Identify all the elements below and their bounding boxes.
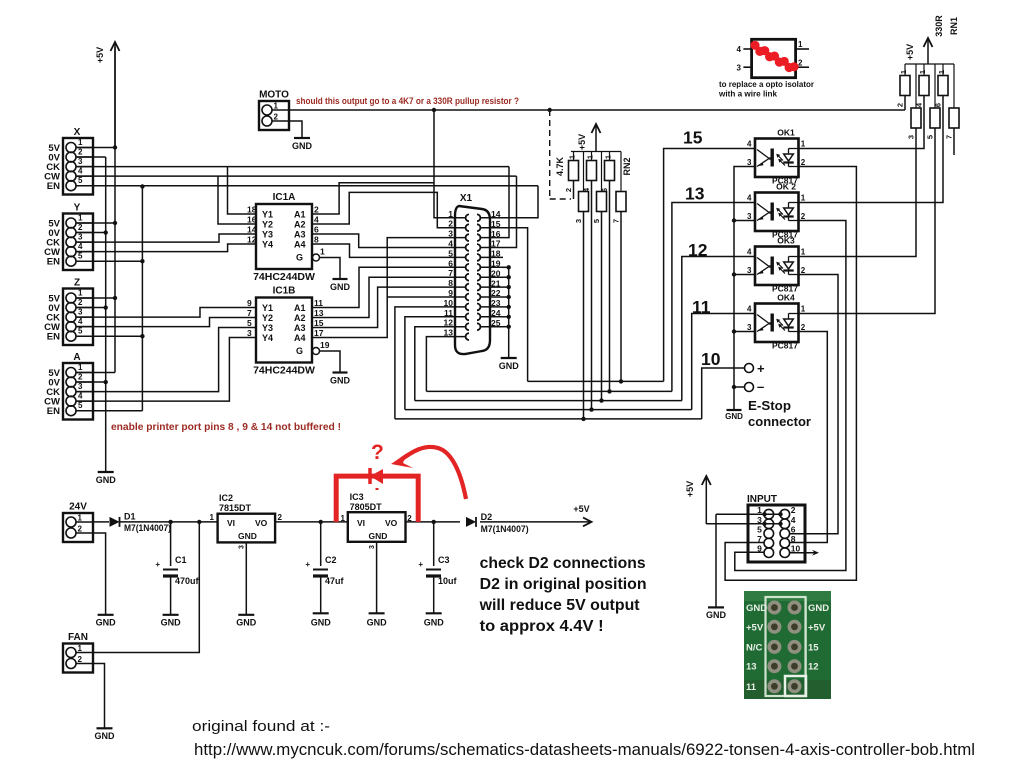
svg-text:4: 4 xyxy=(791,515,796,525)
svg-text:3: 3 xyxy=(747,323,752,332)
svg-text:EN: EN xyxy=(47,406,60,417)
svg-text:1: 1 xyxy=(801,140,806,149)
svg-text:2: 2 xyxy=(801,323,806,332)
svg-text:19: 19 xyxy=(491,259,501,269)
svg-text:4: 4 xyxy=(78,242,83,251)
svg-text:3: 3 xyxy=(239,545,246,549)
svg-text:IC2: IC2 xyxy=(219,493,233,503)
svg-text:original found at :-: original found at :- xyxy=(192,718,330,735)
svg-text:8: 8 xyxy=(448,278,453,288)
svg-text:OK3: OK3 xyxy=(777,236,795,246)
svg-text:12: 12 xyxy=(808,662,819,673)
svg-text:6: 6 xyxy=(791,525,796,535)
svg-text:1: 1 xyxy=(937,70,946,74)
svg-text:?: ? xyxy=(371,441,384,464)
svg-text:will reduce 5V output: will reduce 5V output xyxy=(479,597,641,614)
svg-text:7: 7 xyxy=(612,219,621,223)
svg-text:24: 24 xyxy=(491,308,501,318)
svg-text:N/C: N/C xyxy=(746,642,763,653)
svg-text:GND: GND xyxy=(746,603,767,614)
svg-text:7: 7 xyxy=(757,534,762,544)
svg-text:1: 1 xyxy=(801,248,806,257)
svg-text:RN1: RN1 xyxy=(949,17,959,35)
svg-text:OK1: OK1 xyxy=(777,128,795,138)
svg-text:GND: GND xyxy=(236,618,257,628)
svg-text:C1: C1 xyxy=(175,555,187,565)
svg-text:7: 7 xyxy=(247,308,252,318)
svg-text:GND: GND xyxy=(292,141,313,151)
svg-text:6: 6 xyxy=(600,188,609,192)
svg-text:1: 1 xyxy=(604,155,613,159)
svg-text:18: 18 xyxy=(491,249,501,259)
svg-text:74HC244DW: 74HC244DW xyxy=(253,271,315,283)
svg-text:A4: A4 xyxy=(294,333,306,343)
svg-text:18: 18 xyxy=(247,205,257,215)
svg-text:EN: EN xyxy=(47,332,60,343)
svg-text:Y1: Y1 xyxy=(262,303,273,313)
svg-text:4.7K: 4.7K xyxy=(555,156,565,176)
svg-text:GND: GND xyxy=(96,618,117,628)
svg-text:2: 2 xyxy=(78,373,83,382)
svg-text:3: 3 xyxy=(78,157,83,166)
svg-text:24V: 24V xyxy=(69,502,87,513)
svg-text:http://www.mycncuk.com/forums/: http://www.mycncuk.com/forums/schematics… xyxy=(194,741,975,759)
svg-text:2: 2 xyxy=(78,298,83,307)
svg-text:G: G xyxy=(296,346,303,356)
svg-text:2: 2 xyxy=(314,205,319,215)
svg-text:Y3: Y3 xyxy=(262,230,273,240)
svg-text:5: 5 xyxy=(448,248,453,258)
svg-text:2: 2 xyxy=(801,212,806,221)
svg-text:2: 2 xyxy=(448,219,453,229)
svg-text:1: 1 xyxy=(586,155,595,159)
svg-text:PC817: PC817 xyxy=(772,341,798,351)
svg-text:13: 13 xyxy=(746,662,757,673)
svg-text:25: 25 xyxy=(491,318,501,328)
svg-text:7815DT: 7815DT xyxy=(219,503,252,513)
svg-text:3: 3 xyxy=(369,545,376,549)
svg-text:M7(1N4007): M7(1N4007) xyxy=(481,524,529,534)
svg-text:10uf: 10uf xyxy=(438,576,458,586)
svg-text:+5V: +5V xyxy=(746,622,764,633)
svg-text:GND: GND xyxy=(311,618,332,628)
svg-text:+5V: +5V xyxy=(685,481,695,497)
svg-text:C3: C3 xyxy=(438,555,450,565)
svg-text:4: 4 xyxy=(78,167,83,176)
svg-text:21: 21 xyxy=(491,278,501,288)
svg-text:EN: EN xyxy=(47,181,60,192)
svg-text:14: 14 xyxy=(491,209,501,219)
svg-text:GND: GND xyxy=(330,376,351,386)
svg-text:6: 6 xyxy=(934,103,943,107)
svg-text:11: 11 xyxy=(746,682,757,693)
svg-text:3: 3 xyxy=(448,229,453,239)
svg-text:3: 3 xyxy=(574,219,583,223)
svg-text:4: 4 xyxy=(747,140,752,149)
svg-text:+5V: +5V xyxy=(95,47,105,63)
svg-text:GND: GND xyxy=(424,618,445,628)
svg-text:1: 1 xyxy=(918,70,927,74)
svg-text:13: 13 xyxy=(314,308,324,318)
svg-text:1: 1 xyxy=(798,40,803,49)
svg-text:with a wire link: with a wire link xyxy=(718,89,777,99)
svg-text:330R: 330R xyxy=(934,15,944,37)
svg-text:E-Stop: E-Stop xyxy=(748,399,791,413)
svg-text:3: 3 xyxy=(747,266,752,275)
svg-text:1: 1 xyxy=(899,70,908,74)
svg-text:4: 4 xyxy=(747,194,752,203)
svg-text:GND: GND xyxy=(369,531,388,541)
svg-text:5: 5 xyxy=(926,135,935,139)
svg-text:Z: Z xyxy=(74,278,80,289)
svg-text:470uf: 470uf xyxy=(175,576,200,586)
svg-text:2: 2 xyxy=(78,148,83,157)
svg-text:6: 6 xyxy=(448,258,453,268)
svg-text:1: 1 xyxy=(78,289,83,298)
svg-text:5: 5 xyxy=(78,327,83,336)
svg-text:16: 16 xyxy=(491,229,501,239)
svg-text:2: 2 xyxy=(78,655,83,664)
svg-text:1: 1 xyxy=(341,514,346,523)
svg-text:to approx 4.4V !: to approx 4.4V ! xyxy=(480,618,604,635)
svg-text:enable printer port pins 8 , 9: enable printer port pins 8 , 9 & 14 not … xyxy=(111,421,341,433)
svg-text:X: X xyxy=(74,127,81,138)
svg-text:1: 1 xyxy=(210,513,215,522)
svg-text:D1: D1 xyxy=(124,512,136,522)
svg-text:should this output go to a 4K7: should this output go to a 4K7 or a 330R… xyxy=(296,96,519,107)
svg-text:MOTO: MOTO xyxy=(259,90,289,101)
svg-text:2: 2 xyxy=(278,513,283,522)
svg-text:A4: A4 xyxy=(294,240,306,250)
svg-text:check D2 connections: check D2 connections xyxy=(480,555,646,572)
svg-text:EN: EN xyxy=(47,257,60,268)
svg-text:+5V: +5V xyxy=(808,622,826,633)
svg-text:15: 15 xyxy=(314,318,324,328)
svg-text:74HC244DW: 74HC244DW xyxy=(253,365,315,377)
svg-text:4: 4 xyxy=(747,305,752,314)
svg-text:+5V: +5V xyxy=(573,504,589,514)
svg-text:A1: A1 xyxy=(294,303,306,313)
svg-text:3: 3 xyxy=(78,233,83,242)
svg-text:7: 7 xyxy=(945,135,954,139)
svg-text:3: 3 xyxy=(737,64,742,73)
svg-text:3: 3 xyxy=(747,158,752,167)
svg-text:4: 4 xyxy=(78,317,83,326)
svg-text:2: 2 xyxy=(78,525,83,534)
svg-text:A: A xyxy=(73,352,80,363)
svg-text:A2: A2 xyxy=(294,220,306,230)
svg-text:+5V: +5V xyxy=(577,134,587,150)
svg-text:1: 1 xyxy=(78,138,83,147)
svg-text:G: G xyxy=(296,253,303,263)
svg-text:1: 1 xyxy=(78,363,83,372)
svg-text:+: + xyxy=(418,560,423,569)
svg-text:5: 5 xyxy=(78,176,83,185)
svg-text:4: 4 xyxy=(448,239,453,249)
svg-text:1: 1 xyxy=(320,247,325,257)
svg-text:GND: GND xyxy=(499,361,520,371)
svg-text:1: 1 xyxy=(801,305,806,314)
svg-text:GND: GND xyxy=(96,475,117,485)
svg-text:GND: GND xyxy=(238,531,257,541)
svg-text:Y2: Y2 xyxy=(262,220,273,230)
svg-text:5: 5 xyxy=(247,318,252,328)
svg-text:47uf: 47uf xyxy=(325,576,345,586)
svg-text:2: 2 xyxy=(274,113,279,122)
svg-text:3: 3 xyxy=(747,212,752,221)
svg-text:+: + xyxy=(155,560,160,569)
svg-text:3: 3 xyxy=(78,382,83,391)
svg-text:A3: A3 xyxy=(294,230,306,240)
svg-text:A2: A2 xyxy=(294,313,306,323)
svg-text:16: 16 xyxy=(247,215,257,225)
svg-text:+: + xyxy=(305,560,310,569)
svg-text:VO: VO xyxy=(385,518,398,528)
svg-text:15: 15 xyxy=(683,128,703,148)
svg-text:9: 9 xyxy=(757,544,762,554)
svg-text:5: 5 xyxy=(592,219,601,223)
svg-text:C2: C2 xyxy=(325,555,337,565)
svg-text:connector: connector xyxy=(748,415,811,429)
svg-text:2: 2 xyxy=(896,103,905,107)
svg-text:OK 2: OK 2 xyxy=(776,182,796,192)
svg-text:IC1A: IC1A xyxy=(273,192,296,203)
svg-text:13: 13 xyxy=(685,184,705,204)
svg-text:A1: A1 xyxy=(294,210,306,220)
svg-text:2: 2 xyxy=(78,223,83,232)
svg-text:4: 4 xyxy=(737,45,742,54)
svg-text:15: 15 xyxy=(808,642,819,653)
svg-text:Y3: Y3 xyxy=(262,323,273,333)
svg-text:2: 2 xyxy=(798,59,803,68)
svg-text:17: 17 xyxy=(491,239,501,249)
svg-text:GND: GND xyxy=(808,603,829,614)
svg-text:VI: VI xyxy=(357,518,365,528)
svg-text:12: 12 xyxy=(247,235,257,245)
svg-text:Y2: Y2 xyxy=(262,313,273,323)
svg-text:4: 4 xyxy=(314,215,319,225)
svg-text:20: 20 xyxy=(491,268,501,278)
svg-text:3: 3 xyxy=(78,308,83,317)
svg-text:RN2: RN2 xyxy=(622,157,632,175)
svg-text:GND: GND xyxy=(725,412,743,421)
svg-text:1: 1 xyxy=(274,102,279,111)
svg-text:–: – xyxy=(757,379,764,394)
svg-text:5: 5 xyxy=(78,252,83,261)
svg-text:1: 1 xyxy=(801,194,806,203)
svg-text:7: 7 xyxy=(448,268,453,278)
svg-text:INPUT: INPUT xyxy=(747,494,777,505)
svg-text:D2: D2 xyxy=(481,512,493,522)
svg-text:Y1: Y1 xyxy=(262,210,273,220)
svg-text:3: 3 xyxy=(247,328,252,338)
svg-text:+5V: +5V xyxy=(905,44,915,60)
svg-text:5: 5 xyxy=(757,525,762,535)
svg-text:GND: GND xyxy=(706,610,727,620)
svg-text:IC1B: IC1B xyxy=(273,286,296,297)
svg-text:8: 8 xyxy=(314,235,319,245)
svg-text:+: + xyxy=(757,361,765,376)
svg-text:OK4: OK4 xyxy=(777,293,795,303)
svg-text:1: 1 xyxy=(78,644,83,653)
svg-text:GND: GND xyxy=(330,282,351,292)
svg-text:1: 1 xyxy=(78,214,83,223)
svg-text:10: 10 xyxy=(701,349,721,369)
svg-text:3: 3 xyxy=(907,135,916,139)
svg-text:7805DT: 7805DT xyxy=(350,502,383,512)
svg-text:17: 17 xyxy=(314,328,324,338)
svg-text:11: 11 xyxy=(444,308,453,318)
svg-text:VI: VI xyxy=(227,518,235,528)
svg-text:8: 8 xyxy=(791,534,796,544)
svg-text:A3: A3 xyxy=(294,323,306,333)
svg-text:9: 9 xyxy=(448,288,453,298)
svg-text:2: 2 xyxy=(791,505,796,515)
svg-text:Y: Y xyxy=(74,203,81,214)
svg-text:11: 11 xyxy=(314,298,323,308)
svg-text:FAN: FAN xyxy=(68,632,88,643)
svg-text:4: 4 xyxy=(78,392,83,401)
svg-text:23: 23 xyxy=(491,298,501,308)
svg-text:GND: GND xyxy=(161,618,182,628)
svg-text:Y4: Y4 xyxy=(262,240,273,250)
svg-text:2: 2 xyxy=(801,158,806,167)
svg-text:Y4: Y4 xyxy=(262,333,273,343)
svg-text:VO: VO xyxy=(255,518,268,528)
svg-text:22: 22 xyxy=(491,288,501,298)
svg-text:1: 1 xyxy=(568,155,577,159)
svg-text:6: 6 xyxy=(314,225,319,235)
svg-text:GND: GND xyxy=(95,731,116,741)
svg-text:to replace a opto isolator: to replace a opto isolator xyxy=(719,79,815,89)
svg-text:X1: X1 xyxy=(460,193,473,204)
svg-text:D2 in original position: D2 in original position xyxy=(480,576,647,593)
svg-text:15: 15 xyxy=(491,219,501,229)
svg-text:M7(1N4007): M7(1N4007) xyxy=(124,523,171,533)
svg-text:4: 4 xyxy=(747,248,752,257)
svg-text:14: 14 xyxy=(247,225,257,235)
svg-text:2: 2 xyxy=(801,266,806,275)
svg-text:5: 5 xyxy=(78,401,83,410)
svg-text:9: 9 xyxy=(247,298,252,308)
svg-text:2: 2 xyxy=(564,188,573,192)
svg-text:1: 1 xyxy=(448,209,453,219)
svg-text:GND: GND xyxy=(367,618,388,628)
svg-text:19: 19 xyxy=(320,340,330,350)
svg-text:1: 1 xyxy=(78,514,83,523)
svg-text:IC3: IC3 xyxy=(350,492,364,502)
